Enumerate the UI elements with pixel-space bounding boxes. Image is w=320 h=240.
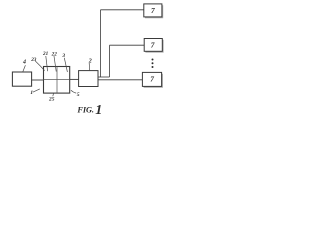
leader from label 22	[54, 56, 56, 72]
box 7 bottom shadow	[144, 74, 163, 88]
leader from label 1	[33, 89, 40, 92]
svg-text:5: 5	[77, 92, 80, 98]
svg-text:25: 25	[48, 96, 55, 102]
wire B to bottom box 7	[98, 79, 142, 81]
leader from label 23	[35, 61, 44, 71]
wire A (box2 right, short)	[98, 76, 110, 78]
svg-text:1: 1	[95, 103, 102, 118]
leader from label 21	[46, 56, 48, 71]
box 2 (interface block)	[79, 71, 98, 87]
box 4 (left block)	[12, 72, 31, 86]
svg-text:7: 7	[151, 6, 155, 15]
svg-text:FIG.: FIG.	[76, 105, 93, 114]
leader from label 2	[88, 63, 91, 70]
box 1 (main unit, 2x2 subdivided)	[44, 67, 70, 94]
divider horizontal inside box 1	[44, 78, 70, 80]
leader from label 25	[52, 93, 55, 96]
wire box1 to box2	[70, 78, 79, 80]
leader from label 5	[71, 90, 76, 93]
wire to top box 7	[101, 9, 144, 11]
svg-text:21: 21	[42, 51, 49, 57]
box 7 middle	[144, 39, 162, 52]
svg-text:7: 7	[151, 41, 155, 50]
svg-text:4: 4	[22, 60, 26, 66]
wire box4 to box1	[32, 79, 44, 81]
box 7 middle shadow	[145, 40, 163, 53]
svg-text:1: 1	[30, 90, 33, 96]
svg-text:3: 3	[61, 53, 65, 59]
trunk wire 2 (vertical to middle)	[109, 45, 111, 77]
box 7 top shadow	[145, 5, 163, 18]
leader from label 4	[23, 65, 26, 72]
trunk wire 1 (vertical to top)	[100, 10, 102, 77]
box 7 bottom	[142, 72, 161, 86]
wire to middle box 7	[110, 44, 145, 46]
svg-text:2: 2	[88, 59, 92, 65]
leader from label 3	[64, 58, 67, 72]
vertical ellipsis dots	[152, 59, 154, 61]
box 7 top	[144, 4, 162, 17]
svg-text:7: 7	[150, 74, 154, 83]
divider vertical inside box 1	[56, 67, 58, 94]
